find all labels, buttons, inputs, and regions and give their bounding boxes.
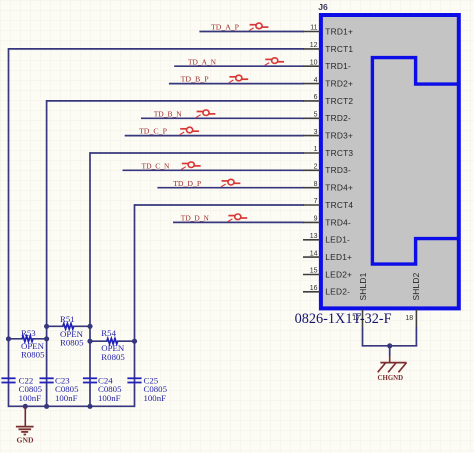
wire net TD_C_N to pin 2 (123, 169, 305, 171)
wire shield drop (389, 346, 391, 363)
svg-text:TRCT4: TRCT4 (325, 200, 353, 210)
svg-text:TD_A_P: TD_A_P (211, 23, 240, 32)
svg-text:0826-1X1T-32-F: 0826-1X1T-32-F (295, 311, 392, 327)
differential pair directive on TD_A_N (265, 58, 284, 66)
wire TRCT1 horizontal+vertical (9, 48, 305, 407)
wire shield horizontal (362, 345, 418, 347)
svg-text:SHLD2: SHLD2 (411, 272, 421, 300)
junction at 8.5,338.8 (6, 336, 11, 341)
svg-text:R53: R53 (21, 328, 36, 338)
junction at 46.6,326.3 (44, 324, 49, 329)
svg-text:TD_D_P: TD_D_P (173, 179, 202, 188)
svg-text:2: 2 (314, 164, 318, 171)
svg-text:GND: GND (17, 435, 34, 444)
junction at 90,326.3 (87, 324, 92, 329)
svg-text:9: 9 (314, 216, 318, 223)
resistor R53 (9, 328, 47, 360)
differential pair directive on TD_A_P (249, 23, 268, 31)
ground GND (16, 406, 34, 444)
pin 18 SHLD2 (405, 272, 421, 327)
pin 9 TRD4- (303, 216, 351, 228)
svg-text:LED2-: LED2- (325, 287, 350, 297)
svg-text:1: 1 (314, 146, 318, 153)
chassis ground CHGND (378, 363, 407, 382)
pin 10 TRD1- (303, 59, 351, 71)
svg-text:TD_B_N: TD_B_N (154, 109, 182, 118)
svg-text:TRD4-: TRD4- (325, 217, 351, 227)
svg-text:7: 7 (314, 198, 318, 205)
differential pair directive on TD_C_P (180, 127, 199, 135)
wire TRCT4 horizontal+vertical (135, 204, 305, 407)
svg-text:16: 16 (310, 285, 318, 292)
differential pair directive on TD_C_N (181, 162, 200, 170)
wire net TD_A_P to pin 11 (199, 31, 304, 33)
svg-text:TRD3-: TRD3- (325, 165, 351, 175)
resistor R51 (47, 314, 90, 347)
connector J6 jack graphic (372, 58, 458, 265)
pin 15 LED2+ (303, 268, 352, 280)
svg-text:LED1-: LED1- (325, 235, 350, 245)
connector J6 body (321, 15, 459, 308)
svg-text:R51: R51 (60, 314, 75, 324)
svg-text:11: 11 (310, 25, 317, 32)
svg-text:100nF: 100nF (98, 393, 121, 403)
wire net TD_A_N to pin 10 (174, 65, 304, 67)
svg-text:TD_D_N: TD_D_N (181, 214, 209, 223)
pin 7 TRCT4 (303, 198, 353, 210)
junction at 46.6,406.3 (44, 404, 49, 409)
pin 16 LED2- (303, 285, 350, 297)
capacitor C22 (1, 376, 42, 403)
differential pair directive on TD_B_P (229, 75, 248, 83)
svg-text:18: 18 (405, 315, 413, 322)
differential pair directive on TD_B_N (196, 110, 215, 118)
net label TD_B_P (181, 75, 210, 84)
net label TD_C_N (142, 161, 170, 170)
svg-text:LED1+: LED1+ (325, 252, 352, 262)
capacitor C25 (127, 376, 167, 403)
junction at 90,406.3 (87, 404, 92, 409)
differential pair directive on TD_D_P (221, 179, 240, 187)
svg-text:TRD2+: TRD2+ (325, 79, 353, 89)
svg-text:14: 14 (310, 250, 318, 257)
svg-text:15: 15 (310, 268, 318, 275)
svg-text:TRD2-: TRD2- (325, 113, 351, 123)
svg-text:LED2+: LED2+ (325, 269, 352, 279)
pin 3 TRD3+ (303, 129, 353, 141)
comment 0826-1X1T-32-F (295, 311, 392, 327)
svg-text:TRCT1: TRCT1 (325, 44, 353, 54)
svg-text:R0805: R0805 (60, 337, 84, 347)
wire TRCT3 horizontal+vertical (90, 152, 304, 407)
svg-text:TD_B_P: TD_B_P (181, 75, 210, 84)
net label TD_C_P (139, 127, 168, 136)
designator J6 (318, 2, 328, 12)
net label TD_B_N (154, 109, 182, 118)
pin 5 TRD2- (303, 112, 351, 124)
svg-text:TRD1+: TRD1+ (325, 26, 353, 36)
svg-text:TRCT3: TRCT3 (325, 148, 353, 158)
svg-text:TRD1-: TRD1- (325, 61, 351, 71)
svg-text:TD_C_N: TD_C_N (142, 161, 170, 170)
net label TD_A_N (188, 57, 216, 66)
pin 14 LED1+ (303, 250, 352, 262)
svg-text:10: 10 (310, 59, 318, 66)
wire net TD_B_N to pin 5 (141, 117, 304, 119)
differential pair directive on TD_D_N (228, 214, 247, 222)
svg-text:TRCT2: TRCT2 (325, 96, 353, 106)
pin 13 LED1- (303, 233, 350, 245)
svg-text:3: 3 (314, 129, 318, 136)
svg-text:5: 5 (314, 112, 318, 119)
capacitor C24 (83, 376, 122, 403)
wire net TD_C_P to pin 3 (125, 135, 304, 137)
wire SHLD2 to CHGND (415, 327, 417, 346)
svg-text:100nF: 100nF (55, 393, 78, 403)
svg-text:J6: J6 (318, 2, 328, 12)
net label TD_D_N (181, 214, 209, 223)
svg-text:6: 6 (314, 94, 318, 101)
pin 11 TRD1+ (303, 25, 353, 37)
svg-text:CHGND: CHGND (378, 373, 404, 382)
wire net TD_B_P to pin 4 (169, 83, 304, 85)
pin 17 SHLD1 (352, 272, 368, 327)
svg-text:8: 8 (314, 181, 318, 188)
junction shield node (387, 343, 392, 348)
net label TD_D_P (173, 179, 202, 188)
svg-text:TD_C_P: TD_C_P (139, 127, 168, 136)
svg-text:100nF: 100nF (19, 393, 42, 403)
junction at 134.5,341.2 (132, 339, 137, 344)
svg-text:TRD3+: TRD3+ (325, 131, 353, 141)
svg-text:TD_A_N: TD_A_N (188, 57, 216, 66)
resistor R54 (90, 328, 135, 362)
wire net TD_D_N to pin 9 (173, 221, 304, 223)
pin 1 TRCT3 (303, 146, 353, 158)
svg-text:R0805: R0805 (21, 349, 45, 359)
pin 2 TRD3- (303, 164, 351, 176)
svg-text:SHLD1: SHLD1 (358, 272, 368, 300)
wire SHLD1 to CHGND (362, 327, 364, 346)
svg-text:100nF: 100nF (144, 393, 167, 403)
svg-text:R0805: R0805 (101, 352, 125, 362)
pin 12 TRCT1 (303, 42, 353, 54)
pin 6 TRCT2 (303, 94, 353, 106)
svg-text:13: 13 (310, 233, 318, 240)
pin 4 TRD2+ (303, 77, 353, 89)
wire net TD_D_P to pin 8 (157, 187, 304, 189)
pin 8 TRD4+ (303, 181, 353, 193)
capacitor C23 (40, 376, 80, 403)
junction at 46.6,338.8 (44, 336, 49, 341)
wire TRCT2 horizontal+vertical (47, 100, 304, 407)
junction at 90,341.2 (87, 339, 92, 344)
net label TD_A_P (211, 23, 240, 32)
svg-text:12: 12 (310, 42, 318, 49)
junction at 25.3,406.3 (23, 404, 28, 409)
svg-text:TRD4+: TRD4+ (325, 183, 353, 193)
svg-text:4: 4 (314, 77, 318, 84)
svg-text:R54: R54 (101, 328, 116, 338)
wire bottom GND rail (9, 405, 135, 407)
